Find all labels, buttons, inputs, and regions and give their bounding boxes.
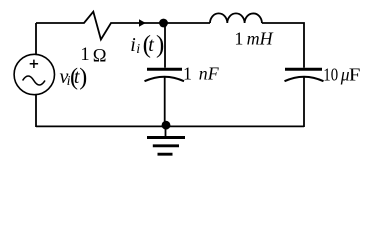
svg-text:10: 10 — [323, 65, 338, 85]
svg-text:F: F — [349, 64, 361, 84]
svg-text:1: 1 — [234, 29, 243, 49]
svg-text:nF: nF — [199, 64, 220, 84]
svg-text:1: 1 — [183, 64, 192, 84]
svg-text:vi(t): vi(t) — [60, 65, 88, 91]
svg-text:1: 1 — [80, 45, 89, 65]
svg-text:Ω: Ω — [93, 47, 107, 67]
svg-text:mH: mH — [247, 29, 274, 49]
svg-text:ii(t): ii(t) — [130, 32, 164, 59]
